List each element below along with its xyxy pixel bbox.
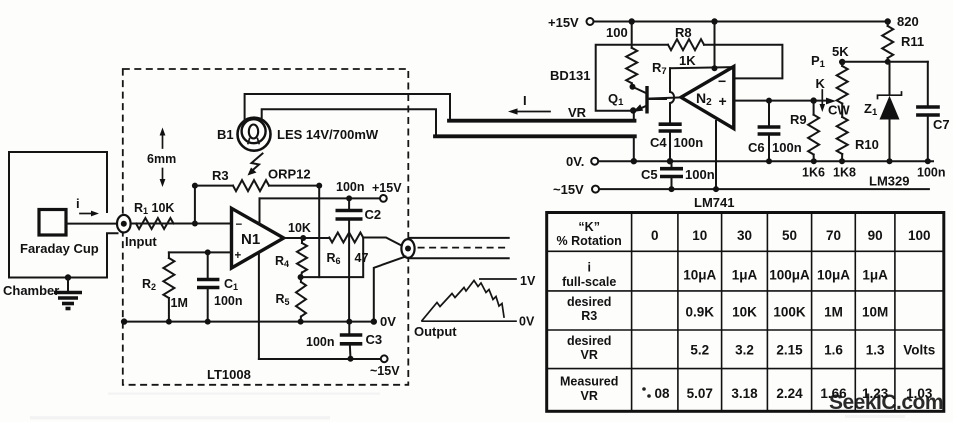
svg-text:1.3: 1.3 xyxy=(866,343,885,358)
-15V rail (right) xyxy=(599,188,929,190)
dashed enclosure LT1008 module xyxy=(123,69,409,385)
N1 non-inverting input wire xyxy=(169,251,232,253)
capacitor C2 xyxy=(336,198,363,321)
wire R3 right lead xyxy=(269,185,319,187)
svg-text:VR: VR xyxy=(581,348,598,362)
svg-text:100: 100 xyxy=(908,228,931,243)
N2 V- pin xyxy=(715,121,717,189)
svg-text:820: 820 xyxy=(897,14,919,29)
node Q1 collector / R7 xyxy=(630,84,636,90)
svg-text:5.2: 5.2 xyxy=(690,343,709,358)
svg-text:C2: C2 xyxy=(365,207,382,222)
node R11 top xyxy=(885,18,891,24)
node R5 bottom xyxy=(298,319,304,325)
wire R1 out to N1 inverting input xyxy=(131,223,232,225)
svg-text:0: 0 xyxy=(651,228,659,243)
svg-text:5K: 5K xyxy=(832,44,849,59)
coax top line xyxy=(410,237,509,239)
zener Z1 xyxy=(878,62,902,161)
-15V terminal (right) xyxy=(592,186,599,193)
wire +15V decoupling down to C4 (with hop) xyxy=(670,68,674,122)
node R11 bottom xyxy=(885,59,891,65)
+15V rail xyxy=(594,21,888,23)
node shield/0V xyxy=(371,318,377,324)
svg-text:R11: R11 xyxy=(901,34,924,49)
potentiometer P1 xyxy=(837,62,848,104)
6mm spacing arrows xyxy=(147,128,176,188)
resistor R11 xyxy=(882,22,893,62)
svg-text:0V: 0V xyxy=(380,314,396,329)
table row desired R3 xyxy=(567,295,888,323)
wire R3 feedback down to divider xyxy=(318,186,320,278)
node C2 top xyxy=(346,195,352,201)
node cable return xyxy=(631,158,637,164)
node P1 top xyxy=(839,59,845,65)
chamber outline xyxy=(9,152,118,278)
output waveform sketch xyxy=(422,279,516,321)
svg-text:Volts: Volts xyxy=(903,343,935,358)
node R2 bottom xyxy=(166,319,172,325)
wire R6 to output node xyxy=(363,238,402,246)
+15V supply line (left) xyxy=(260,197,380,199)
svg-text:100n: 100n xyxy=(336,180,365,194)
svg-text:C3: C3 xyxy=(366,332,383,347)
coax center dashed xyxy=(418,247,507,249)
svg-text:1μA: 1μA xyxy=(862,268,888,283)
ground xyxy=(54,274,82,308)
svg-text:1K: 1K xyxy=(679,53,696,68)
lamp B1 xyxy=(238,118,271,151)
svg-text:I: I xyxy=(523,93,527,108)
svg-text:3.2: 3.2 xyxy=(735,343,754,358)
svg-text:R9: R9 xyxy=(790,112,807,127)
svg-text:LM741: LM741 xyxy=(694,195,734,210)
node C4/C5 xyxy=(667,158,673,164)
N2 V+ horizontal xyxy=(670,67,732,68)
svg-text:+: + xyxy=(235,250,242,262)
svg-text:C6: C6 xyxy=(748,140,765,155)
svg-text:1.6: 1.6 xyxy=(824,343,843,358)
0V rail (module) xyxy=(124,321,374,323)
svg-text:K: K xyxy=(816,76,826,91)
ORP12 light arrow xyxy=(248,154,263,176)
svg-text:10K: 10K xyxy=(732,305,757,320)
thick cable VR xyxy=(449,119,635,123)
wire branch up to R3 xyxy=(194,186,196,224)
svg-text:100n: 100n xyxy=(917,166,946,180)
svg-text:BD131: BD131 xyxy=(550,68,590,83)
node rail left end xyxy=(121,318,127,324)
table column lines xyxy=(632,213,895,412)
-15V terminal (left) xyxy=(381,355,388,362)
svg-text:N1: N1 xyxy=(241,231,260,248)
table header row xyxy=(557,220,931,248)
svg-text:1μA: 1μA xyxy=(732,268,758,283)
0V terminal (right) xyxy=(591,158,598,165)
resistor R5 xyxy=(296,277,306,322)
wire R3 left lead xyxy=(195,185,233,187)
N2 non-inverting input line xyxy=(736,100,829,102)
node Z1 bottom xyxy=(887,158,893,164)
table row lines xyxy=(547,251,944,368)
svg-text:3.18: 3.18 xyxy=(731,386,758,401)
reference node line xyxy=(842,61,928,63)
Faraday cup xyxy=(39,210,66,236)
svg-text:R8: R8 xyxy=(675,25,692,40)
faint page artifacts xyxy=(30,393,905,420)
svg-text:VR: VR xyxy=(581,389,598,403)
op-amp N1 xyxy=(232,208,284,268)
coax bottom line xyxy=(410,257,509,259)
svg-text:Output: Output xyxy=(414,324,457,339)
wire N2 V+ supply xyxy=(714,22,716,69)
svg-text:i: i xyxy=(587,261,590,275)
N1 output wire xyxy=(284,237,330,239)
capacitor C3 xyxy=(340,322,363,359)
svg-text:Measured: Measured xyxy=(560,375,618,389)
svg-text:100n: 100n xyxy=(306,335,335,349)
svg-text:CW: CW xyxy=(828,103,850,118)
node R7 top xyxy=(629,18,635,24)
node output/R4 xyxy=(300,235,306,241)
wire output shield to 0V xyxy=(374,257,406,322)
svg-text:100n: 100n xyxy=(772,140,802,155)
svg-text:R10: R10 xyxy=(855,137,879,152)
node V+ junction xyxy=(712,65,718,71)
svg-text:70: 70 xyxy=(826,228,841,243)
svg-text:30: 30 xyxy=(737,228,752,243)
node R4/R5 junction xyxy=(298,274,304,280)
current I arrow xyxy=(508,108,550,114)
transistor Q1 xyxy=(633,86,667,114)
svg-text:+15V: +15V xyxy=(548,15,579,30)
svg-text:2.24: 2.24 xyxy=(776,386,803,401)
svg-text:50: 50 xyxy=(782,228,797,243)
svg-text:~15V: ~15V xyxy=(553,182,584,197)
svg-text:i: i xyxy=(76,196,80,211)
output node connector xyxy=(401,239,414,258)
svg-text:SeekIC.com: SeekIC.com xyxy=(829,391,943,414)
svg-text:LT1008: LT1008 xyxy=(207,367,251,382)
node R3 right xyxy=(316,183,322,189)
svg-text:1M: 1M xyxy=(824,305,843,320)
svg-text:C7: C7 xyxy=(933,117,950,132)
N1 V+ pin xyxy=(259,198,261,224)
svg-text:100n: 100n xyxy=(685,167,715,182)
0V rail (right) xyxy=(598,160,933,162)
svg-text:100K: 100K xyxy=(773,305,806,320)
resistor R8 xyxy=(668,39,704,50)
svg-text:1M: 1M xyxy=(171,296,188,310)
node N2 V+ xyxy=(711,18,717,24)
svg-text:R3: R3 xyxy=(212,168,229,183)
svg-text:+: + xyxy=(719,93,727,109)
svg-text:6mm: 6mm xyxy=(147,152,176,166)
node Q1 emitter xyxy=(630,107,636,113)
svg-text:−: − xyxy=(718,73,726,89)
svg-text:1K6: 1K6 xyxy=(802,166,825,180)
svg-text:100n: 100n xyxy=(674,135,704,150)
node R3 left xyxy=(192,183,198,189)
resistor R7 xyxy=(626,22,637,87)
node N2 V- xyxy=(713,186,719,192)
svg-text:0.9K: 0.9K xyxy=(686,305,715,320)
node C1 bottom xyxy=(205,319,211,325)
svg-text:ORP12: ORP12 xyxy=(268,167,311,182)
svg-text:% Rotation: % Rotation xyxy=(557,234,622,248)
capacitor C5 xyxy=(660,161,683,189)
svg-text:5.07: 5.07 xyxy=(687,386,713,401)
capacitor C4 xyxy=(659,124,682,161)
wiper arrowhead xyxy=(826,98,836,105)
table row i full-scale xyxy=(562,261,888,290)
svg-text:+15V: +15V xyxy=(372,181,402,195)
input node connector xyxy=(117,215,131,233)
wire lamp terminal B xyxy=(262,109,436,135)
svg-text:VR: VR xyxy=(568,105,587,120)
svg-text:desired: desired xyxy=(567,295,611,309)
svg-text:−: − xyxy=(236,219,243,231)
resistor R2 xyxy=(163,252,174,321)
svg-text:100μA: 100μA xyxy=(769,268,810,283)
resistor R6 xyxy=(329,233,363,243)
wire cable B down to 0V xyxy=(633,136,635,161)
+15V terminal (left) xyxy=(380,195,387,202)
svg-text:LM329: LM329 xyxy=(869,174,909,189)
wire emitter to R8 left xyxy=(596,45,668,111)
N1 V- pin xyxy=(258,253,260,360)
+15V terminal (right) xyxy=(587,18,594,25)
table row desired VR xyxy=(567,334,935,362)
svg-text:10M: 10M xyxy=(862,305,888,320)
capacitor C6 xyxy=(758,101,781,162)
svg-text:90: 90 xyxy=(868,228,883,243)
node C7 bottom xyxy=(925,158,931,164)
node R10 bottom xyxy=(839,158,845,164)
svg-text:10: 10 xyxy=(692,228,707,243)
svg-text:R3: R3 xyxy=(581,309,597,323)
svg-text:LES 14V/700mW: LES 14V/700mW xyxy=(277,127,379,142)
svg-text:2.15: 2.15 xyxy=(776,343,803,358)
wire divider to R6 right xyxy=(301,238,364,278)
resistor R1 xyxy=(136,218,174,229)
node C6 bottom xyxy=(766,158,772,164)
node C6 top xyxy=(766,98,772,104)
svg-text:Chamber: Chamber xyxy=(3,283,59,298)
svg-text:10μA: 10μA xyxy=(683,268,716,283)
node C2/C3 junction xyxy=(346,319,352,325)
svg-text:0V: 0V xyxy=(519,315,535,329)
svg-text:0V.: 0V. xyxy=(566,154,584,169)
node R9 bottom xyxy=(811,158,817,164)
svg-text:10μA: 10μA xyxy=(817,268,850,283)
svg-text:1K8: 1K8 xyxy=(833,166,856,180)
svg-text:Faraday Cup: Faraday Cup xyxy=(20,241,99,256)
node junction R1/R3 xyxy=(192,221,198,227)
svg-text:1V: 1V xyxy=(520,274,536,288)
svg-text:B1: B1 xyxy=(217,127,234,142)
svg-text:C4: C4 xyxy=(650,135,667,150)
svg-text:08: 08 xyxy=(654,386,670,401)
resistor R10 xyxy=(837,104,848,162)
wire lamp terminal A xyxy=(245,94,450,121)
svg-text:full-scale: full-scale xyxy=(562,275,616,289)
svg-text:R1 10K: R1 10K xyxy=(134,201,174,216)
capacitor C7 xyxy=(916,62,940,161)
node R9 top xyxy=(810,97,816,103)
wire cable A up to emitter xyxy=(633,111,635,122)
svg-text:C5: C5 xyxy=(641,167,658,182)
capacitor C1 xyxy=(197,252,219,321)
op-amp N2 (pointing left) xyxy=(681,67,734,129)
current i arrow xyxy=(76,196,99,216)
svg-text:10K: 10K xyxy=(288,221,311,235)
table frame xyxy=(547,213,944,412)
svg-text:desired: desired xyxy=(567,334,611,348)
wire cup to input node xyxy=(66,223,117,225)
resistor R4 xyxy=(297,238,307,277)
svg-text:~15V: ~15V xyxy=(370,364,400,378)
-15V branch line (left) xyxy=(259,358,381,360)
node C5 bottom xyxy=(669,186,675,192)
svg-text:47: 47 xyxy=(355,251,369,265)
svg-text:100n: 100n xyxy=(214,294,243,308)
table row Measured VR xyxy=(560,375,933,404)
K rotation arrow xyxy=(816,76,826,112)
resistor R9 xyxy=(808,101,819,162)
wire N2 output to Q1 base xyxy=(647,97,681,98)
svg-text:“K”: “K” xyxy=(578,220,600,234)
thick cable 0V return xyxy=(435,134,635,138)
svg-text:100: 100 xyxy=(606,25,628,40)
node C3 bottom xyxy=(348,356,354,362)
svg-text:Input: Input xyxy=(125,234,157,249)
node C1 top xyxy=(205,249,211,255)
resistor R3 (ORP12 LDR) xyxy=(233,180,269,191)
wire R8 right to N2 inverting input xyxy=(704,45,782,79)
